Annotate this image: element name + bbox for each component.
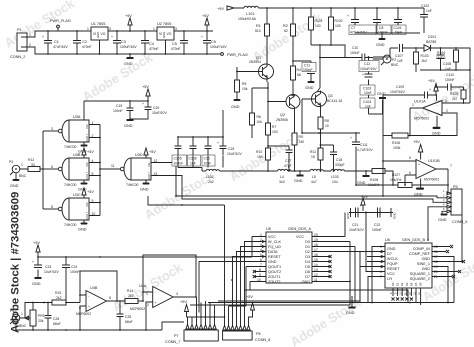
svg-text:VO: VO [101, 32, 106, 36]
resistor R2 [283, 8, 296, 61]
ground GND power rail [124, 54, 134, 66]
resistor R9 [292, 113, 304, 171]
svg-text:C22: C22 [374, 223, 380, 227]
svg-text:+9V: +9V [217, 7, 224, 11]
svg-text:GND: GND [162, 32, 166, 38]
op-amp U4A MCP6002 [130, 284, 178, 311]
svg-text:C26: C26 [53, 317, 59, 321]
svg-text:1: 1 [153, 27, 155, 31]
inductor L4 [278, 169, 291, 184]
svg-text:P1: P1 [17, 28, 22, 32]
svg-text:74HC00: 74HC00 [64, 223, 77, 227]
NAND gate U3D 74HC00 [111, 153, 157, 187]
wire U3A output [43, 130, 58, 132]
capacitor C106 [188, 137, 201, 166]
svg-text:D3: D3 [405, 282, 409, 286]
power +5V arrow P7 [180, 300, 189, 317]
svg-text:10k: 10k [242, 87, 248, 91]
svg-text:5: 5 [109, 296, 111, 300]
svg-text:COMP_IN: COMP_IN [413, 247, 431, 251]
resistor R4 [291, 61, 301, 94]
U6 no-connect right crosses [446, 245, 465, 278]
svg-text:10nF: 10nF [204, 162, 212, 166]
svg-text:+: + [42, 35, 44, 39]
regulator U2 7805 [153, 22, 177, 54]
svg-text:+: + [88, 305, 90, 309]
wire U3D input 12 long bus [151, 163, 447, 198]
svg-text:100nF: 100nF [113, 109, 123, 113]
svg-text:U1 7805: U1 7805 [91, 22, 105, 26]
U6 input pin arrows [381, 250, 385, 268]
svg-text:6: 6 [51, 165, 53, 169]
svg-text:1: 1 [146, 292, 148, 296]
svg-text:20k: 20k [38, 319, 44, 323]
U6 left pin wires [350, 213, 385, 303]
svg-text:R9: R9 [299, 135, 303, 139]
svg-text:15: 15 [434, 245, 438, 249]
wire decoupling ground [178, 156, 223, 168]
svg-text:1nF: 1nF [365, 105, 371, 109]
svg-text:GND 7: GND 7 [86, 171, 89, 179]
svg-text:GND: GND [294, 179, 303, 183]
svg-text:C107: C107 [395, 54, 403, 58]
wire U4B output [107, 300, 126, 302]
svg-text:-: - [418, 174, 419, 178]
wire U6 supply row [349, 212, 393, 214]
power +5V arrow U6 [361, 195, 368, 211]
svg-text:D5: D5 [305, 265, 310, 269]
svg-text:+5V: +5V [87, 190, 94, 194]
svg-text:RESET: RESET [268, 255, 281, 259]
svg-text:BNC: BNC [391, 63, 399, 67]
resistor R15 [44, 291, 80, 305]
ground GND filter caps [376, 33, 386, 47]
U5 left pin numbers [257, 233, 262, 282]
svg-text:GND: GND [32, 282, 41, 286]
svg-text:D2: D2 [305, 250, 310, 254]
svg-text:C19: C19 [116, 104, 122, 108]
svg-text:CONN_7: CONN_7 [165, 340, 180, 344]
svg-text:GND: GND [432, 132, 441, 136]
svg-text:2u2: 2u2 [208, 180, 214, 184]
svg-text:C12: C12 [364, 62, 370, 66]
wire U3C output [43, 208, 58, 210]
svg-text:PWR_FLAG: PWR_FLAG [50, 19, 71, 23]
svg-text:GND: GND [96, 32, 100, 38]
svg-text:RESET: RESET [387, 267, 400, 271]
U6 bottom no-connect crosses [392, 298, 413, 301]
svg-text:100nF: 100nF [445, 78, 455, 82]
wire P1 pin1 to +9V rail [27, 31, 38, 37]
wire U2 out rail [174, 30, 213, 32]
svg-text:+: + [155, 301, 157, 305]
svg-text:U101A: U101A [414, 100, 426, 104]
svg-text:11: 11 [111, 164, 115, 168]
svg-text:GND: GND [422, 267, 431, 271]
svg-text:+5V: +5V [33, 241, 40, 245]
wire U101A output [410, 108, 423, 136]
svg-text:U3D: U3D [135, 153, 143, 157]
resistor R11 [310, 148, 323, 171]
svg-text:+: + [32, 260, 34, 264]
svg-text:1: 1 [380, 245, 382, 249]
svg-text:C18: C18 [336, 158, 342, 162]
wire P7 pin feeds [188, 297, 215, 325]
ground GND U6 [346, 303, 356, 316]
svg-text:BAT85: BAT85 [426, 40, 436, 44]
wire U101A V+ stub [436, 95, 438, 101]
regulator U1 7805 [87, 22, 111, 54]
connector P1 CONN_2 [10, 28, 31, 59]
svg-text:P5: P5 [453, 185, 458, 189]
svg-text:68nF: 68nF [125, 320, 133, 324]
capacitor C110 [436, 73, 464, 91]
svg-text:3: 3 [175, 27, 177, 31]
wire lower data rails [190, 290, 408, 305]
svg-text:100: 100 [315, 24, 321, 28]
resistor R7 [266, 102, 278, 172]
connector P7 CONN_7 [165, 325, 218, 345]
svg-text:L102: L102 [206, 175, 214, 179]
power +9V feed arrow [217, 6, 244, 11]
transistor Q3 BC141-16 [312, 91, 343, 114]
resistor R10 [256, 148, 271, 160]
svg-text:+: + [362, 73, 364, 77]
svg-text:+: + [217, 141, 219, 145]
svg-text:100nF: 100nF [372, 228, 382, 232]
svg-text:Adobe Stock: Adobe Stock [2, 0, 78, 51]
capacitor C101 [392, 8, 406, 35]
wire U6 D5 D6 joins [416, 296, 421, 305]
svg-text:FQUP: FQUP [387, 262, 398, 266]
NAND gate U3A 74HC00 [51, 115, 94, 149]
resistor R105 [450, 87, 466, 103]
power +5V arrow U101B [413, 140, 423, 160]
connector P2 BNC [373, 55, 399, 67]
capacitor C8 [373, 8, 391, 35]
wire +5V audio rail [38, 237, 252, 258]
svg-text:GND 7: GND 7 [148, 171, 151, 179]
capacitor C16 [202, 137, 215, 166]
svg-text:4: 4 [380, 260, 382, 264]
svg-text:3: 3 [176, 292, 178, 296]
U6 right pin wires [432, 214, 462, 303]
capacitor C3 [111, 31, 137, 54]
svg-text:ZOUT1: ZOUT1 [268, 275, 280, 279]
svg-text:240: 240 [299, 140, 305, 144]
svg-text:PR1: PR1 [38, 314, 45, 318]
wire U4A input links [143, 292, 153, 330]
svg-text:GND: GND [268, 260, 277, 264]
svg-text:U6: U6 [385, 238, 390, 242]
svg-text:R103: R103 [421, 54, 429, 58]
svg-text:P14: P14 [86, 202, 89, 207]
wire U3C inputs [89, 203, 100, 216]
svg-text:R5: R5 [242, 82, 246, 86]
svg-text:470nF: 470nF [171, 47, 181, 51]
svg-text:+: + [350, 136, 352, 140]
svg-text:GND: GND [422, 257, 431, 261]
svg-text:+: + [142, 102, 144, 106]
power +5V arrow right [428, 79, 438, 95]
IC U6 GEN_DDS_B [385, 238, 432, 288]
svg-text:2k2: 2k2 [422, 59, 428, 63]
svg-text:R15: R15 [55, 291, 61, 295]
svg-text:GND: GND [305, 86, 314, 90]
svg-text:+5V: +5V [142, 85, 149, 89]
NAND gate U3C 74HC00 [51, 193, 95, 227]
potentiometer PR1 [25, 303, 45, 331]
U6 right pin numbers [434, 245, 438, 279]
resistor R8 [318, 113, 329, 148]
power +9V arrow [125, 14, 132, 31]
svg-text:2N3906: 2N3906 [276, 118, 288, 122]
svg-text:C24: C24 [71, 265, 77, 269]
svg-text:10uF/16V: 10uF/16V [44, 270, 59, 274]
svg-text:GND: GND [438, 218, 447, 222]
wire Q1 emitter branch to R6 [252, 88, 268, 113]
svg-text:C5: C5 [172, 42, 177, 46]
power +5V arrow U3C [82, 188, 94, 198]
svg-text:GND: GND [302, 280, 311, 284]
svg-text:+5V: +5V [202, 14, 209, 18]
svg-text:R102: R102 [335, 19, 343, 23]
capacitor C4 [141, 31, 159, 54]
ground GND C104 [369, 92, 387, 114]
wire decoupling row rail [178, 110, 223, 137]
capacitor C18 [330, 145, 345, 167]
svg-text:P7: P7 [174, 334, 179, 338]
wire fan to connectors [229, 280, 247, 313]
capacitor C20 [130, 101, 167, 119]
wire ground rail top [38, 53, 220, 55]
svg-text:MCP6002: MCP6002 [76, 312, 91, 316]
svg-text:VCC: VCC [296, 235, 304, 239]
svg-text:74HC00: 74HC00 [126, 183, 139, 187]
svg-text:2k2: 2k2 [56, 296, 62, 300]
svg-text:+5V: +5V [413, 140, 420, 144]
svg-text:D101: D101 [428, 35, 436, 39]
svg-text:100k: 100k [393, 146, 401, 150]
svg-text:10u: 10u [332, 180, 338, 184]
svg-text:WCLK: WCLK [387, 257, 398, 261]
svg-text:COMP_REF: COMP_REF [409, 252, 431, 256]
svg-text:+5V: +5V [149, 150, 156, 154]
svg-text:100nF: 100nF [378, 31, 388, 35]
wire U4B feedback loop [80, 271, 117, 303]
svg-text:17: 17 [434, 255, 438, 259]
svg-text:68nF: 68nF [53, 322, 61, 326]
svg-text:Q3: Q3 [328, 94, 333, 98]
svg-text:C110: C110 [446, 73, 454, 77]
resistor R6 [250, 113, 263, 138]
svg-text:100uF/16V: 100uF/16V [120, 45, 137, 49]
wire U101B input 5 [383, 160, 416, 162]
svg-text:P3: P3 [9, 160, 13, 164]
connector P4 BNC [10, 309, 27, 330]
svg-text:MCP6002: MCP6002 [424, 178, 439, 182]
svg-text:15: 15 [311, 155, 315, 159]
svg-text:100uF/16V: 100uF/16V [210, 45, 227, 49]
resistor R101 [309, 8, 323, 45]
svg-text:Adobe Stock | #734303609: Adobe Stock | #734303609 [10, 192, 22, 333]
svg-text:R4: R4 [297, 68, 301, 72]
wire oscillator output row [202, 168, 367, 172]
U6 bottom pin labels rotated [391, 282, 423, 286]
svg-text:W_CLK: W_CLK [268, 240, 282, 244]
wire caps ground rail [355, 32, 420, 34]
svg-text:1: 1 [29, 33, 31, 37]
svg-text:1uF: 1uF [397, 59, 403, 63]
NAND gate U3B 74HC00 [51, 153, 94, 187]
svg-text:GND: GND [376, 43, 385, 47]
svg-text:-: - [437, 104, 438, 108]
svg-text:BC141-16: BC141-16 [327, 99, 342, 103]
capacitor C109 [383, 85, 436, 99]
resistor R108 [366, 169, 393, 188]
svg-text:3: 3 [51, 127, 53, 131]
svg-text:10nF: 10nF [364, 91, 372, 95]
connector P5 CONN_5 [443, 185, 467, 224]
svg-text:470nF: 470nF [82, 45, 92, 49]
svg-text:C15: C15 [228, 147, 234, 151]
svg-text:10uF/10V: 10uF/10V [227, 152, 242, 156]
capacitor C104 [360, 98, 375, 114]
ground GND C19/C20 [124, 119, 134, 128]
resistor R103 [414, 48, 429, 72]
capacitor C11 [293, 61, 316, 81]
svg-text:D7: D7 [305, 275, 310, 279]
wire U3D output to input bus [100, 168, 120, 170]
svg-text:470nF: 470nF [149, 47, 159, 51]
svg-text:D7: D7 [387, 252, 392, 256]
svg-text:R8: R8 [325, 119, 329, 123]
wire gate output bus [42, 131, 44, 209]
svg-text:L5: L5 [312, 175, 316, 179]
wire audio ground rail [16, 322, 184, 330]
wire U4A output [173, 296, 196, 298]
svg-text:D4: D4 [305, 260, 310, 264]
svg-text:FQ_UD: FQ_UD [268, 245, 281, 249]
ground GND P5 [438, 211, 448, 222]
transistor Q1 2N3904 [249, 56, 274, 82]
svg-text:C109: C109 [396, 85, 404, 89]
wire P5 pin4 [428, 207, 447, 240]
svg-text:C25: C25 [125, 315, 131, 319]
svg-text:C10: C10 [352, 46, 358, 50]
svg-text:GND: GND [10, 184, 19, 188]
resistor R1 [255, 8, 270, 62]
svg-text:+: + [201, 35, 203, 39]
svg-text:7: 7 [380, 275, 382, 279]
svg-text:SQUARE_1: SQUARE_1 [410, 272, 430, 276]
svg-text:GND 7: GND 7 [86, 133, 89, 141]
svg-text:-: - [88, 295, 89, 299]
svg-text:68: 68 [297, 73, 301, 77]
svg-text:GND: GND [231, 105, 240, 109]
svg-text:7: 7 [450, 164, 452, 168]
svg-text:MCP6002: MCP6002 [130, 307, 145, 311]
wire +9V top rail [258, 7, 424, 9]
svg-text:C7: C7 [351, 26, 355, 30]
svg-text:150pF: 150pF [303, 68, 313, 72]
svg-text:100nF: 100nF [70, 270, 80, 274]
svg-text:4u7: 4u7 [311, 180, 317, 184]
svg-text:R10: R10 [256, 150, 262, 154]
svg-text:BNC: BNC [19, 174, 27, 178]
svg-text:D0: D0 [305, 240, 310, 244]
svg-text:SINE_1: SINE_1 [417, 262, 430, 266]
svg-text:1MEG: 1MEG [436, 56, 446, 60]
wire U5 data bus right drops [345, 213, 360, 306]
wire gate input bus [99, 125, 101, 216]
svg-text:3: 3 [109, 27, 111, 31]
wire U6 ground rail [352, 296, 454, 303]
svg-text:D0: D0 [391, 282, 395, 286]
wire U5 gnd to rail [349, 282, 351, 306]
capacitor C19 [113, 101, 134, 119]
U5 no-connect crosses [253, 270, 256, 278]
wire Q1 base [237, 67, 263, 72]
svg-text:U5: U5 [266, 227, 271, 231]
svg-text:74HC00: 74HC00 [64, 183, 77, 187]
svg-text:R107: R107 [392, 173, 400, 177]
svg-text:+5V: +5V [246, 295, 253, 299]
PWR_FLAG 2 [221, 53, 248, 57]
svg-text:D6: D6 [305, 270, 310, 274]
svg-text:C111: C111 [360, 143, 368, 147]
svg-text:C101: C101 [394, 26, 402, 30]
wire connector feed rail [196, 316, 198, 318]
svg-text:1: 1 [87, 27, 89, 31]
svg-text:GND: GND [357, 181, 366, 185]
svg-text:62: 62 [284, 29, 288, 33]
svg-text:DATA: DATA [268, 250, 278, 254]
capacitor C10 [320, 46, 373, 62]
svg-text:3: 3 [443, 198, 445, 202]
svg-text:+: + [347, 14, 349, 18]
svg-text:U3A: U3A [73, 115, 81, 119]
capacitor C26 [45, 303, 61, 331]
svg-text:L4: L4 [280, 175, 284, 179]
wire C24 to gnd row [65, 276, 67, 303]
svg-text:C11: C11 [304, 64, 310, 68]
svg-text:6: 6 [380, 270, 382, 274]
U5 right pin wires [312, 237, 360, 282]
svg-text:5: 5 [409, 156, 411, 160]
svg-text:3u3: 3u3 [279, 180, 285, 184]
wire U3B output [43, 168, 58, 170]
ground GND left rotated [346, 208, 351, 219]
ground GND U3A [78, 142, 88, 154]
svg-text:U4B: U4B [90, 286, 98, 290]
svg-text:+: + [429, 88, 431, 92]
svg-text:1: 1 [21, 163, 23, 167]
U5 right pin numbers [314, 233, 318, 282]
svg-text:C108: C108 [443, 62, 451, 66]
svg-text:2k7: 2k7 [452, 97, 458, 101]
wire U101B input 6 [405, 175, 416, 185]
ground GND U3C [78, 220, 88, 232]
inductor L103 [331, 169, 344, 184]
svg-text:R105: R105 [450, 92, 458, 96]
wire R101/R102 bottom rail [311, 45, 345, 91]
svg-text:D5: D5 [414, 282, 418, 286]
power +5V arrow U4 [33, 241, 40, 257]
svg-text:2k2: 2k2 [128, 294, 134, 298]
svg-text:GND: GND [414, 193, 423, 197]
svg-text:L101: L101 [246, 12, 254, 16]
